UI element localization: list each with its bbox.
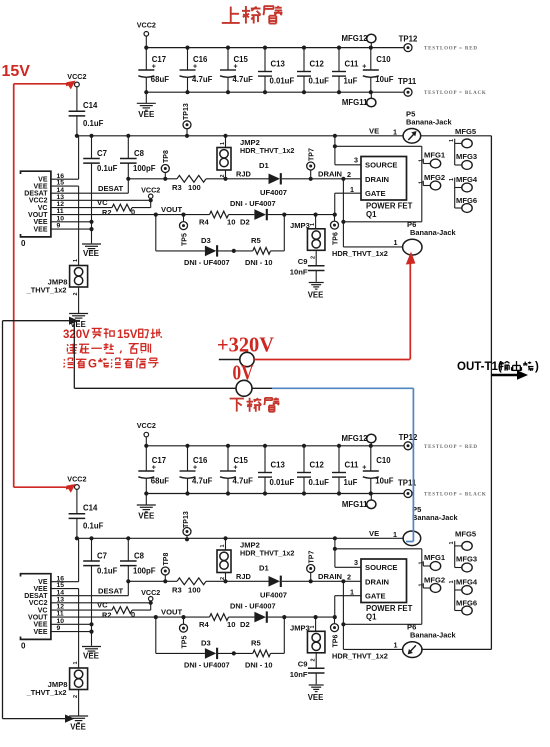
svg-text:0.1uF: 0.1uF	[97, 164, 118, 173]
svg-text:10nF: 10nF	[290, 268, 308, 277]
wire +320V red to P6	[254, 252, 415, 360]
wire pin11 VOUT (bottom)	[51, 608, 210, 620]
gate driver IC U0 (top)	[21, 171, 65, 248]
wire pin14 DESAT (top)	[51, 177, 131, 194]
capacitor C17 68uF (top)	[138, 46, 169, 95]
svg-text:15V: 15V	[117, 329, 138, 341]
svg-text:_THVT_1x2: _THVT_1x2	[26, 286, 67, 295]
test point TP5 (top)	[180, 213, 189, 247]
svg-text:VCC2: VCC2	[137, 21, 156, 30]
jumper JMP3 HDR_THVT_1x2 (top)	[290, 215, 325, 266]
svg-text:VCC2: VCC2	[67, 475, 86, 484]
svg-text:TESTLOOP = BLACK: TESTLOOP = BLACK	[424, 493, 487, 498]
wire pin15 VEE to JMP8 (bottom)	[51, 589, 79, 668]
svg-text:0: 0	[21, 642, 26, 651]
svg-text:VOUT: VOUT	[161, 205, 182, 214]
note TESTLOOP = BLACK (bottom)	[424, 493, 487, 498]
node 0V wire and circle	[74, 380, 272, 396]
test point TP7 (bottom)	[307, 551, 316, 582]
test point TP8 (bottom)	[161, 553, 170, 582]
mounting hole MFG5 (bottom)	[449, 530, 477, 568]
jumper JMP8 _THVT_1x2 (bottom)	[26, 661, 88, 716]
mounting hole MFG6 (top)	[455, 196, 477, 212]
svg-text:DNI - UF4007: DNI - UF4007	[184, 661, 230, 670]
capacitor C15 4.7uF (top)	[220, 46, 253, 95]
test point TP11 (bottom)	[398, 479, 417, 498]
svg-text:Q1: Q1	[366, 210, 377, 219]
svg-text:VEE: VEE	[33, 219, 47, 226]
arrow OUT-T1	[491, 370, 528, 380]
svg-text:0: 0	[21, 239, 26, 248]
test point TP7 (top)	[307, 148, 316, 179]
ground VEE under C17 (bottom)	[137, 494, 156, 521]
svg-text:VC: VC	[97, 198, 108, 207]
svg-text:C10: C10	[376, 456, 391, 465]
wire source loop (top)	[335, 146, 422, 222]
test point TP8 (top)	[161, 150, 170, 179]
test point TP5 (bottom)	[180, 615, 189, 649]
transistor Q1 POWER FET (top)	[347, 156, 413, 220]
svg-text:DESAT: DESAT	[24, 593, 48, 600]
svg-text:VCC2: VCC2	[67, 72, 86, 81]
note TESTLOOP = RED (top)	[424, 47, 478, 52]
svg-text:Banana-Jack: Banana-Jack	[412, 513, 458, 522]
svg-text:+: +	[193, 64, 197, 71]
capacitor C11 1uF (bottom)	[332, 444, 359, 496]
svg-text:C7: C7	[97, 552, 107, 561]
wire VE rail (top)	[75, 134, 404, 138]
wire pin11 VOUT (top)	[51, 205, 210, 217]
svg-text:DNI - 10: DNI - 10	[245, 661, 273, 670]
svg-text:SOURCE: SOURCE	[365, 563, 398, 572]
svg-text:_THVT_1x2: _THVT_1x2	[26, 688, 67, 697]
svg-text:TP13: TP13	[183, 103, 190, 120]
connector P6 Banana-Jack (top)	[332, 220, 456, 258]
svg-text:DNI - UF4007: DNI - UF4007	[230, 602, 276, 611]
svg-text:+: +	[193, 465, 197, 472]
wire 0V blue to bottom P5	[272, 388, 413, 541]
wire VOUT branch down (top)	[156, 215, 205, 251]
wire GATE pin1 (top)	[333, 193, 361, 217]
svg-text:1: 1	[449, 541, 455, 544]
svg-text:TP12: TP12	[399, 433, 418, 442]
capacitor C7 0.1uF (top)	[83, 136, 117, 244]
svg-text:D2: D2	[240, 218, 250, 227]
svg-text:VEE: VEE	[308, 693, 324, 702]
mounting hole MFG3 (top)	[455, 152, 477, 169]
svg-text:68uF: 68uF	[151, 477, 169, 486]
svg-text:1: 1	[394, 641, 398, 650]
ground VEE under JMP8 (bottom)	[69, 716, 88, 732]
connector P5 Banana-Jack (top)	[369, 110, 452, 144]
note TESTLOOP = BLACK (top)	[424, 91, 487, 96]
svg-text:0: 0	[131, 610, 135, 619]
diode D1 UF4007 (top)	[259, 161, 287, 197]
svg-text:VEE: VEE	[138, 110, 155, 119]
jumper JMP3 HDR_THVT_1x2 (bottom)	[290, 617, 325, 668]
svg-text:10nF: 10nF	[290, 670, 308, 679]
svg-text:RJD: RJD	[236, 572, 251, 581]
wire R3 to D1 (bottom)	[206, 572, 270, 583]
svg-text:VCC2: VCC2	[141, 588, 160, 597]
svg-text:2: 2	[311, 256, 317, 259]
svg-text:+: +	[362, 465, 366, 472]
jumper JMP8 _THVT_1x2 (top)	[26, 259, 88, 314]
svg-text:2: 2	[347, 170, 351, 179]
wire 15V red bus	[14, 84, 68, 487]
svg-text:DRAIN: DRAIN	[365, 578, 389, 587]
svg-text:D1: D1	[259, 564, 269, 573]
diode D3 DNI-UF4007 (top)	[184, 236, 253, 267]
svg-text:D2: D2	[240, 620, 250, 629]
svg-text:0.1uF: 0.1uF	[97, 567, 118, 576]
svg-text:320V: 320V	[63, 329, 90, 341]
svg-text:JMP3: JMP3	[290, 221, 310, 230]
wire ground tie (top VEE to 0V)	[3, 317, 79, 389]
power flag VCC2 (mid, top)	[141, 186, 160, 201]
svg-text:10: 10	[227, 218, 235, 227]
svg-text:R2: R2	[102, 611, 111, 620]
capacitor C14 0.1uF (top)	[69, 87, 104, 136]
svg-text:R4: R4	[199, 620, 209, 629]
svg-text:1: 1	[310, 223, 316, 226]
svg-text:C13: C13	[271, 461, 286, 470]
svg-text:10uF: 10uF	[375, 75, 393, 84]
svg-text:10: 10	[227, 620, 235, 629]
svg-text:VEE: VEE	[308, 291, 324, 300]
capacitor C9 10nF (top)	[290, 257, 325, 282]
wire source loop (bottom)	[335, 549, 422, 625]
svg-text:Banana-Jack: Banana-Jack	[410, 228, 456, 237]
svg-text:TP8: TP8	[163, 553, 170, 566]
capacitor C16 4.7uF (bottom)	[180, 444, 213, 496]
svg-text:C9: C9	[298, 257, 308, 266]
svg-text:1uF: 1uF	[344, 478, 358, 487]
test point TP6 (top)	[331, 215, 340, 245]
svg-text:TP11: TP11	[398, 77, 417, 86]
svg-text:VEE: VEE	[33, 629, 47, 636]
svg-text:R2: R2	[102, 208, 111, 217]
wire pin10 VEE (top)	[51, 220, 94, 224]
capacitor C10 10uF (bottom)	[362, 444, 393, 496]
mounting hole MFG1 (top)	[418, 151, 446, 168]
svg-text:4.7uF: 4.7uF	[192, 75, 213, 84]
wire pin10 VEE (bottom)	[51, 622, 94, 626]
note 连在一起，否则	[67, 343, 150, 353]
svg-text:C12: C12	[310, 461, 325, 470]
test point TP6 (bottom)	[331, 617, 340, 647]
mounting hole MFG2 (bottom)	[418, 576, 445, 593]
svg-text:0.1uF: 0.1uF	[309, 478, 330, 487]
mounting hole MFG12 (bottom)	[342, 434, 376, 446]
svg-text:Banana-Jack: Banana-Jack	[406, 118, 452, 127]
svg-text:R3: R3	[172, 183, 182, 192]
svg-text:VC: VC	[97, 601, 108, 610]
svg-text:DNI - UF4007: DNI - UF4007	[184, 258, 230, 267]
resistor R4 10 (top)	[199, 211, 235, 226]
svg-text:VE: VE	[369, 127, 379, 136]
connector P5 Banana-Jack (bottom)	[369, 505, 458, 546]
svg-text:C7: C7	[97, 149, 107, 158]
label 0V	[233, 361, 254, 385]
wire pin16 VE (top)	[51, 136, 79, 179]
svg-text:4.7uF: 4.7uF	[192, 477, 213, 486]
capacitor C13 0.01uF (bottom)	[258, 444, 294, 496]
wire VCC2 top rail (top)	[146, 47, 404, 49]
svg-text:DESAT: DESAT	[98, 184, 124, 193]
svg-text:VEE: VEE	[33, 586, 47, 593]
diode D2 DNI-UF4007 (bottom)	[229, 602, 335, 630]
mounting hole MFG1 (bottom)	[418, 553, 446, 570]
svg-text:MFG12: MFG12	[342, 434, 369, 443]
svg-text:RJD: RJD	[236, 170, 251, 179]
svg-text:4.7uF: 4.7uF	[233, 477, 254, 486]
ground VEE (driver, bottom)	[82, 647, 101, 661]
svg-text:MFG5: MFG5	[455, 127, 477, 136]
svg-text:DNI - UF4007: DNI - UF4007	[230, 199, 276, 208]
svg-text:C11: C11	[345, 461, 360, 470]
mounting hole MFG3 (bottom)	[455, 555, 477, 572]
svg-text:+: +	[362, 64, 366, 71]
capacitor C11 1uF (top)	[332, 46, 359, 95]
capacitor C12 0.1uF (top)	[297, 46, 329, 95]
svg-text:0.01uF: 0.01uF	[270, 77, 295, 86]
resistor R3 100 (top)	[172, 175, 206, 192]
capacitor C9 10nF (bottom)	[290, 660, 325, 685]
wire pin16 VE (bottom)	[51, 538, 79, 581]
svg-text:VOUT: VOUT	[28, 212, 48, 219]
wire DESAT-R3 node (bottom)	[128, 579, 177, 583]
svg-text:1: 1	[449, 178, 455, 181]
wire ground tie left bus	[3, 321, 75, 723]
svg-text:DRAIN: DRAIN	[365, 175, 389, 184]
svg-text:C12: C12	[310, 60, 325, 69]
capacitor C8 100pF (top)	[120, 136, 156, 179]
wire D1 to DRAIN (bottom)	[282, 572, 361, 583]
svg-text:1: 1	[394, 238, 398, 247]
wire D1 to DRAIN (top)	[282, 170, 361, 181]
svg-text:100pF: 100pF	[133, 164, 156, 173]
ground VEE under C17 (top)	[137, 92, 156, 119]
svg-text:GATE: GATE	[365, 592, 386, 601]
svg-text:): )	[535, 361, 539, 373]
svg-text:0.1uF: 0.1uF	[83, 522, 104, 531]
svg-text:68uF: 68uF	[151, 75, 169, 84]
svg-text:VC: VC	[38, 205, 48, 212]
svg-text:VEE: VEE	[70, 723, 86, 732]
wire VE rail (bottom)	[75, 536, 404, 540]
note 没有G端没有信号	[64, 358, 159, 371]
svg-text:DRAIN: DRAIN	[318, 170, 342, 179]
svg-text:C10: C10	[376, 55, 391, 64]
svg-text:C11: C11	[345, 60, 360, 69]
capacitor C13 0.01uF (top)	[258, 46, 294, 95]
svg-text:C14: C14	[83, 101, 98, 110]
resistor R2 0 (bottom)	[102, 603, 151, 620]
svg-text:HDR_THVT_1x2: HDR_THVT_1x2	[240, 549, 294, 558]
wire SOURCE pin3 (top)	[333, 134, 361, 165]
note TESTLOOP = RED (bottom)	[424, 445, 478, 450]
svg-text:DESAT: DESAT	[24, 191, 48, 198]
mounting hole MFG5 (top)	[449, 127, 477, 165]
resistor R3 100 (bottom)	[172, 578, 206, 595]
mounting hole MFG12 (top)	[342, 34, 376, 48]
svg-text:C8: C8	[134, 149, 145, 158]
svg-text:VE: VE	[369, 529, 379, 538]
gate driver IC U0 (bottom)	[21, 574, 65, 651]
svg-text:MFG5: MFG5	[455, 530, 477, 539]
svg-text:2: 2	[311, 658, 317, 661]
svg-text:TP5: TP5	[182, 233, 189, 246]
svg-text:1uF: 1uF	[344, 77, 358, 86]
svg-text:MFG11: MFG11	[342, 500, 368, 509]
power flag VCC2 (top cap bank)	[137, 21, 156, 48]
svg-text:10uF: 10uF	[375, 477, 393, 486]
test point TP13 (top)	[183, 103, 191, 138]
svg-text:D1: D1	[259, 161, 269, 170]
svg-text:1: 1	[220, 142, 226, 145]
wire pin13 VCC2 (top)	[51, 198, 153, 202]
label 15V	[2, 63, 31, 80]
wire VCC2 top rail (bottom)	[146, 445, 404, 447]
svg-text:2: 2	[73, 695, 79, 698]
svg-text:D3: D3	[201, 236, 211, 245]
capacitor C14 0.1uF (bottom)	[69, 489, 104, 538]
wire VE line to bus (top)	[420, 135, 491, 137]
wire OUT bus vertical	[490, 136, 492, 650]
svg-text:Q1: Q1	[366, 613, 377, 622]
svg-text:MFG1: MFG1	[424, 553, 446, 562]
mounting hole MFG4 (top)	[449, 175, 478, 208]
svg-text:3: 3	[354, 558, 358, 567]
wire pin9 VEE (bottom)	[51, 630, 94, 634]
svg-text:C9: C9	[298, 660, 308, 669]
svg-text:VC: VC	[38, 607, 48, 614]
svg-text:VEE: VEE	[83, 652, 100, 661]
svg-text:R5: R5	[251, 236, 261, 245]
test point TP13 (bottom)	[183, 511, 191, 541]
wire DRAIN to P6 (bottom)	[341, 581, 402, 649]
svg-text:TP5: TP5	[182, 636, 189, 649]
svg-text:1: 1	[393, 530, 397, 539]
svg-text:2: 2	[347, 573, 351, 582]
svg-text:TP7: TP7	[309, 148, 316, 161]
wire pin12 VC (bottom)	[51, 601, 112, 611]
svg-text:100: 100	[188, 183, 201, 192]
wire GATE pin1 (bottom)	[333, 596, 361, 620]
wire bottom P6 to OUT bus	[421, 648, 491, 650]
svg-text:1: 1	[73, 661, 79, 664]
capacitor C15 4.7uF (bottom)	[220, 444, 253, 496]
svg-text:MFG3: MFG3	[456, 555, 477, 564]
svg-text:TP6: TP6	[333, 232, 340, 245]
capacitor C7 0.1uF (bottom)	[83, 538, 117, 646]
svg-text:2: 2	[220, 577, 226, 580]
power flag VCC2 (15V input, bottom)	[67, 475, 86, 490]
svg-text:TESTLOOP = RED: TESTLOOP = RED	[424, 47, 478, 52]
power flag VCC2 (mid, bottom)	[141, 588, 160, 603]
title 上桥臂 (upper bridge arm)	[222, 6, 283, 24]
svg-text:+: +	[234, 64, 238, 71]
ground VEE (driver, top)	[82, 244, 101, 258]
capacitor C17 68uF (bottom)	[138, 444, 169, 496]
svg-text:VCC2: VCC2	[29, 198, 48, 205]
svg-text:JMP3: JMP3	[290, 624, 310, 633]
jumper JMP2 HDR_THVT_1x2 (bottom)	[217, 538, 294, 581]
label OUT-T1(输出端)	[457, 361, 539, 373]
capacitor C16 4.7uF (top)	[180, 46, 213, 95]
wire pin15 VEE to JMP8 (top)	[51, 186, 79, 265]
svg-text:R4: R4	[199, 218, 209, 227]
resistor R2 0 (top)	[102, 200, 151, 217]
svg-text:HDR_THVT_1x2: HDR_THVT_1x2	[332, 652, 388, 661]
svg-text:1: 1	[310, 625, 316, 628]
svg-text:D3: D3	[201, 639, 211, 648]
connector P6 Banana-Jack (bottom)	[332, 623, 456, 661]
svg-text:VCC2: VCC2	[29, 600, 48, 607]
svg-text:VEE: VEE	[33, 226, 47, 233]
svg-text:2: 2	[220, 174, 226, 177]
transistor Q1 POWER FET (bottom)	[347, 558, 413, 622]
svg-text:0.1uF: 0.1uF	[309, 77, 330, 86]
mounting hole MFG2 (top)	[418, 173, 445, 190]
svg-text:VOUT: VOUT	[28, 614, 48, 621]
svg-text:1: 1	[220, 544, 226, 547]
arrow 15V to VCC2 (bottom)	[66, 484, 76, 493]
wire SOURCE pin3 (bottom)	[333, 536, 361, 567]
test point TP12 (top)	[399, 35, 418, 52]
svg-text:1: 1	[449, 139, 455, 142]
svg-text:4.7uF: 4.7uF	[233, 75, 254, 84]
svg-text:TP8: TP8	[163, 150, 170, 163]
svg-text:VCC2: VCC2	[141, 186, 160, 195]
svg-text:TP13: TP13	[183, 511, 190, 528]
capacitor C8 100pF (bottom)	[120, 538, 156, 581]
svg-text:MFG1: MFG1	[424, 151, 446, 160]
wire VOUT branch down (bottom)	[156, 617, 205, 653]
svg-text:DRAIN: DRAIN	[318, 572, 342, 581]
mounting hole MFG4 (bottom)	[449, 578, 478, 611]
diode D3 DNI-UF4007 (bottom)	[184, 639, 253, 670]
power flag VCC2 (bottom cap bank)	[137, 421, 156, 446]
mounting hole MFG11 (top)	[342, 92, 376, 107]
arrow 15V to VCC2 (top)	[66, 81, 76, 90]
capacitor C10 10uF (top)	[362, 46, 393, 95]
svg-text:Banana-Jack: Banana-Jack	[410, 631, 456, 640]
wire pin14 DESAT (bottom)	[51, 579, 131, 596]
svg-text:C14: C14	[83, 504, 98, 513]
diode D2 DNI-UF4007 (top)	[229, 199, 335, 227]
svg-text:C13: C13	[271, 60, 286, 69]
power flag VCC2 (15V input, top)	[67, 72, 86, 87]
svg-text:TP7: TP7	[309, 551, 316, 564]
svg-text:MFG12: MFG12	[342, 34, 369, 43]
svg-text:SOURCE: SOURCE	[365, 161, 398, 170]
wire VEE bottom rail (bottom)	[146, 493, 404, 495]
svg-text:1: 1	[73, 259, 79, 262]
svg-text:TESTLOOP = RED: TESTLOOP = RED	[424, 445, 478, 450]
svg-text:15V: 15V	[2, 63, 31, 80]
svg-text:0.1uF: 0.1uF	[83, 119, 104, 128]
svg-text:1: 1	[393, 128, 397, 137]
svg-text:R5: R5	[251, 639, 261, 648]
svg-text:R3: R3	[172, 586, 182, 595]
jumper JMP2 HDR_THVT_1x2 (top)	[217, 136, 294, 179]
svg-text:MFG3: MFG3	[456, 152, 477, 161]
svg-text:G: G	[88, 359, 97, 371]
capacitor C12 0.1uF (bottom)	[297, 444, 329, 496]
wire pin13 VCC2 (bottom)	[51, 601, 153, 605]
